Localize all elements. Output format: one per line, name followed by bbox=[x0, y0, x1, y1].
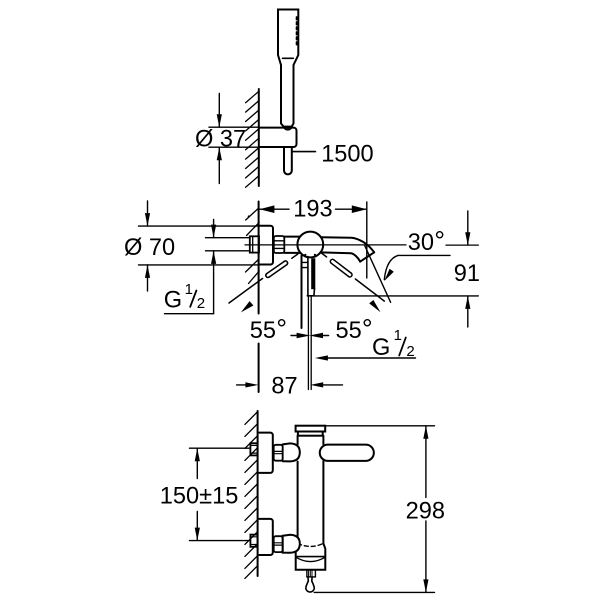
shower bracket bbox=[259, 128, 297, 147]
pipe to valve body bbox=[284, 236, 300, 238]
leader line 1500 bbox=[292, 151, 316, 153]
shower spray strip bbox=[296, 17, 298, 46]
dim Ø37 extension lines bbox=[209, 126, 259, 128]
upper threaded tail bbox=[250, 443, 257, 455]
dashed lever position right 55 bbox=[321, 252, 385, 301]
svg-text:G: G bbox=[164, 288, 182, 314]
svg-text:2: 2 bbox=[406, 343, 414, 360]
dim 298 extension lines bbox=[325, 425, 434, 427]
shower head face separator line bbox=[283, 57, 294, 59]
dim Ø37 arrow up-stem bbox=[218, 94, 220, 128]
svg-text:91: 91 bbox=[454, 261, 480, 287]
body bottom block bbox=[296, 544, 326, 570]
valve body circle bbox=[297, 232, 323, 258]
faucet threaded tail bbox=[250, 236, 259, 252]
dashed lever position left 55 bbox=[229, 254, 298, 303]
G1/2 right slash bbox=[399, 338, 406, 356]
svg-text:55: 55 bbox=[250, 318, 276, 344]
G1/2 right leader bbox=[315, 355, 328, 360]
upper union bell bbox=[283, 443, 300, 461]
svg-text:Ø 37: Ø 37 bbox=[195, 126, 246, 152]
svg-text:87: 87 bbox=[271, 373, 297, 399]
svg-text:1: 1 bbox=[185, 281, 193, 298]
30 degree leader + arc arrow bbox=[398, 254, 450, 256]
svg-text:298: 298 bbox=[406, 498, 445, 524]
svg-text:1500: 1500 bbox=[321, 141, 374, 167]
G1/2 left leader underline bbox=[165, 313, 214, 315]
wall hatching (bottom) bbox=[245, 412, 258, 579]
faucet hex nut (middle) bbox=[274, 236, 285, 253]
outlet nipple bbox=[307, 570, 316, 577]
lower union bell bbox=[283, 535, 300, 553]
G1/2 left slash bbox=[190, 291, 196, 307]
dim 150±15 extension lines bbox=[190, 447, 251, 449]
lever tip extension lines bbox=[307, 297, 309, 390]
lower hex nut bbox=[274, 536, 283, 552]
30 degree reference line bbox=[365, 245, 391, 302]
svg-text:°: ° bbox=[276, 314, 287, 344]
dim 91 arrows bbox=[467, 211, 469, 245]
G1/2 left extension lines (inlet thread) bbox=[206, 237, 250, 239]
upper hex nut bbox=[274, 445, 283, 461]
dim 91 bottom extension line bbox=[314, 295, 478, 297]
svg-text:2: 2 bbox=[197, 295, 205, 312]
faucet escutcheon (middle) bbox=[259, 226, 273, 265]
dim 193 line + arrows bbox=[259, 208, 289, 210]
wall line (top) bbox=[258, 89, 260, 186]
shower hose nut bbox=[284, 127, 292, 130]
spout bbox=[321, 237, 375, 261]
wall line (bottom) bbox=[257, 411, 259, 576]
body tube bbox=[297, 436, 299, 445]
upper escutcheon bbox=[259, 433, 273, 473]
dim 87 line + arrows bbox=[237, 384, 246, 386]
svg-text:55: 55 bbox=[336, 318, 362, 344]
svg-text:Ø 70: Ø 70 bbox=[124, 235, 175, 261]
dim Ø70 extension lines bbox=[139, 225, 259, 227]
lever handle (vertical) bbox=[301, 256, 303, 328]
dim 193 right extension line bbox=[366, 202, 368, 278]
small bowtie arrows at lever tip bbox=[291, 335, 297, 337]
svg-text:30: 30 bbox=[408, 230, 434, 256]
dim 150±15 arrows bbox=[196, 448, 198, 478]
G1/2 left arrows bbox=[213, 220, 215, 238]
body cap bbox=[296, 426, 326, 432]
lower threaded tail bbox=[250, 535, 257, 547]
shower hose bbox=[284, 147, 292, 174]
svg-text:150±15: 150±15 bbox=[160, 483, 239, 509]
dim Ø37 arrow down-stem bbox=[218, 147, 220, 183]
centerline bbox=[245, 244, 406, 246]
drop shape outlet bbox=[306, 577, 315, 592]
wall hatching (top) bbox=[246, 91, 259, 187]
svg-text:G: G bbox=[372, 335, 390, 361]
svg-text:193: 193 bbox=[293, 197, 332, 223]
dim Ø70 arrows bbox=[147, 201, 149, 226]
handle arm (side view) bbox=[320, 445, 374, 461]
wall hatching (middle) bbox=[246, 208, 260, 284]
wall line (middle) bbox=[258, 202, 260, 314]
svg-text:1: 1 bbox=[394, 327, 402, 344]
dim 298 line + arrows bbox=[425, 426, 427, 498]
hand shower head bbox=[278, 10, 298, 127]
svg-text:°: ° bbox=[434, 226, 445, 256]
lower escutcheon bbox=[259, 519, 273, 555]
